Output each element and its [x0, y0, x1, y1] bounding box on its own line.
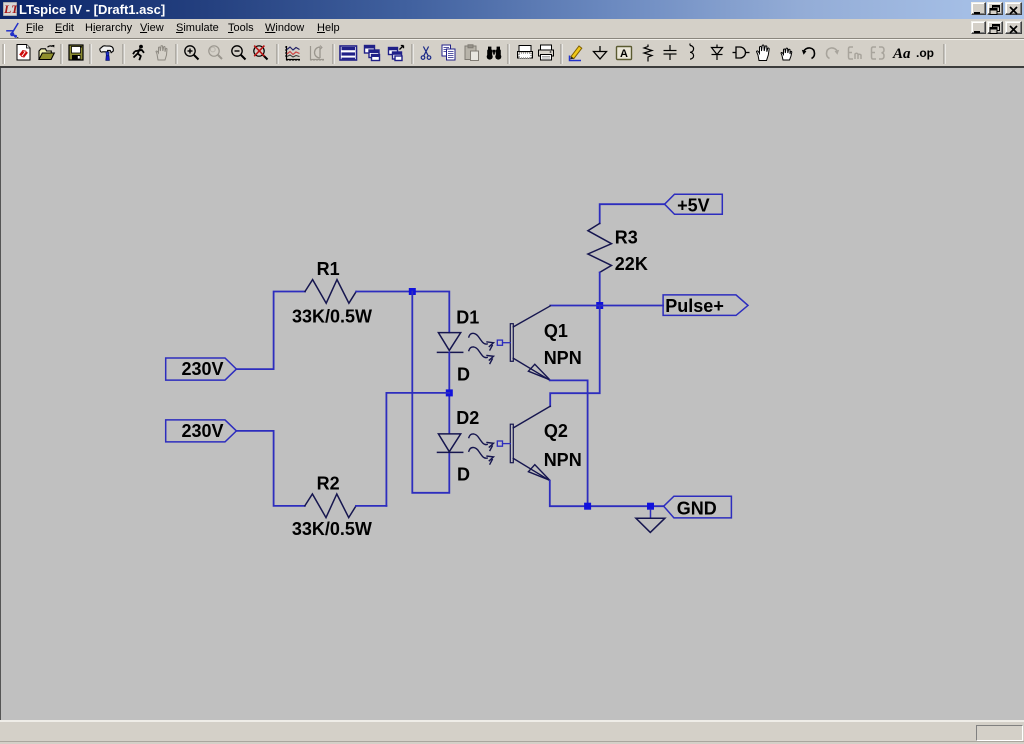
diode D1 (LED): [438, 333, 463, 353]
wire Pulse+ node down to Q2 collector: [550, 306, 600, 407]
svg-text:230V: 230V: [182, 359, 224, 379]
flag +5V: [665, 194, 723, 214]
wire Pulse+ node to flag: [600, 305, 663, 307]
menu bar: [0, 19, 1024, 39]
svg-text:LT: LT: [3, 2, 17, 16]
app icon: [3, 2, 17, 16]
svg-text:D1: D1: [456, 308, 479, 328]
transistor Q1: [510, 306, 550, 380]
svg-text:Q2: Q2: [544, 421, 568, 441]
svg-text:Q1: Q1: [544, 321, 568, 341]
icon place component: [733, 47, 750, 58]
icon cut: [421, 47, 431, 60]
svg-text:D: D: [457, 365, 470, 385]
icon drag (small hand): [781, 48, 792, 60]
icon mirror (disabled): [872, 47, 885, 59]
base port square Q2: [497, 441, 510, 446]
flag Pulse+: [663, 295, 748, 316]
resistor R2: [305, 494, 356, 518]
icon copy: [442, 45, 455, 60]
icon cascade jump: [389, 46, 404, 61]
svg-text:NPN: NPN: [544, 450, 582, 470]
icon paste (disabled): [465, 45, 479, 61]
wire D1 cathode to node D junction to D2 anode: [448, 352, 450, 433]
node junction Pulse+: [596, 302, 603, 309]
icon open: [39, 45, 54, 60]
icon undo: [802, 48, 815, 59]
svg-text:D2: D2: [456, 408, 479, 428]
svg-text:33K/0.5W: 33K/0.5W: [292, 306, 372, 326]
icon control panel hammer: [100, 46, 113, 61]
svg-text:Pulse+: Pulse+: [665, 296, 724, 316]
status bar: [0, 720, 1024, 744]
icon find: [487, 47, 502, 60]
wire from 230V flag 2 through R2 lead: [236, 431, 304, 506]
icon save: [69, 45, 83, 60]
wire Q2 emitter to GND rail: [550, 481, 664, 507]
icon zoom cancel: [254, 46, 268, 60]
svg-text:33K/0.5W: 33K/0.5W: [292, 519, 372, 539]
icon spice directive .op: [916, 46, 934, 60]
icon halt (disabled hand): [156, 46, 167, 60]
title bar: [0, 0, 1024, 19]
photon arrows of D1: [469, 333, 494, 363]
svg-text:+5V: +5V: [677, 196, 710, 216]
icon print preview: [518, 46, 533, 59]
wire +5V flag to R3 top: [600, 204, 665, 223]
svg-text:A: A: [620, 48, 628, 60]
icon waveform pane: [285, 46, 300, 61]
diode D2 (LED): [438, 434, 463, 453]
icon zoom out: [232, 46, 246, 60]
transistor Q2: [510, 406, 550, 480]
svg-text:NPN: NPN: [544, 348, 582, 368]
node D junction: [446, 389, 453, 396]
svg-text:D: D: [457, 465, 470, 485]
toolbar: [0, 39, 1024, 67]
svg-text:R2: R2: [317, 473, 340, 493]
svg-text:R1: R1: [317, 259, 340, 279]
resistor R3: [588, 223, 612, 272]
wire from R1 junction down to D2 bottom: [412, 292, 449, 493]
flag 230V (lower): [166, 420, 237, 442]
wire R2 right lead: [356, 505, 386, 507]
wire Q1 collector to Pulse+ node: [550, 305, 599, 307]
svg-text:22K: 22K: [615, 254, 648, 274]
icon print: [539, 45, 554, 60]
icon redo (disabled): [827, 48, 840, 59]
icon draft wire (pencil): [570, 46, 582, 61]
ground: [636, 510, 665, 533]
icon zoom in: [185, 46, 199, 60]
icon move (hand): [757, 45, 770, 60]
icon search net (disabled): [849, 47, 862, 59]
node junction at ground symbol: [647, 503, 654, 510]
toolbar grip: [2, 44, 4, 64]
svg-text:R3: R3: [615, 227, 638, 247]
svg-text:.op: .op: [916, 46, 934, 60]
svg-text:230V: 230V: [182, 421, 224, 441]
icon tile windows: [340, 46, 357, 60]
node junction at Q1 emitter / GND rail: [584, 503, 591, 510]
wire R3 bottom to Pulse+ node: [599, 272, 601, 305]
icon place label: [617, 47, 632, 61]
icon text Aa: [892, 46, 911, 62]
document icon: [4, 21, 22, 39]
icon run: [133, 45, 144, 61]
icon place diode: [712, 45, 723, 61]
icon new schematic: [17, 45, 30, 61]
photon arrows of D2: [469, 434, 494, 464]
wire from 230V flag 1 to R1 left lead: [236, 292, 305, 370]
node junction at R1 output: [409, 288, 416, 295]
svg-text:GND: GND: [677, 498, 717, 518]
icon zoom extents (disabled): [209, 46, 222, 59]
wire R1 right lead to D1 top: [356, 292, 449, 333]
flag GND: [664, 496, 732, 518]
wire node D to R2 riser: [386, 393, 449, 506]
base port square Q1: [497, 340, 510, 345]
resistor R1: [305, 280, 356, 304]
icon place capacitor: [664, 45, 677, 60]
icon place ground: [594, 46, 607, 59]
icon cascade windows: [365, 46, 380, 61]
svg-text:Aa: Aa: [892, 46, 911, 62]
icon plot settings (disabled): [311, 46, 325, 62]
toolbar separators: [61, 44, 944, 64]
wire Q1 emitter to GND riser: [550, 380, 588, 506]
icon place inductor: [690, 44, 694, 60]
flag 230V (upper): [166, 358, 237, 380]
icon place resistor: [644, 45, 652, 62]
